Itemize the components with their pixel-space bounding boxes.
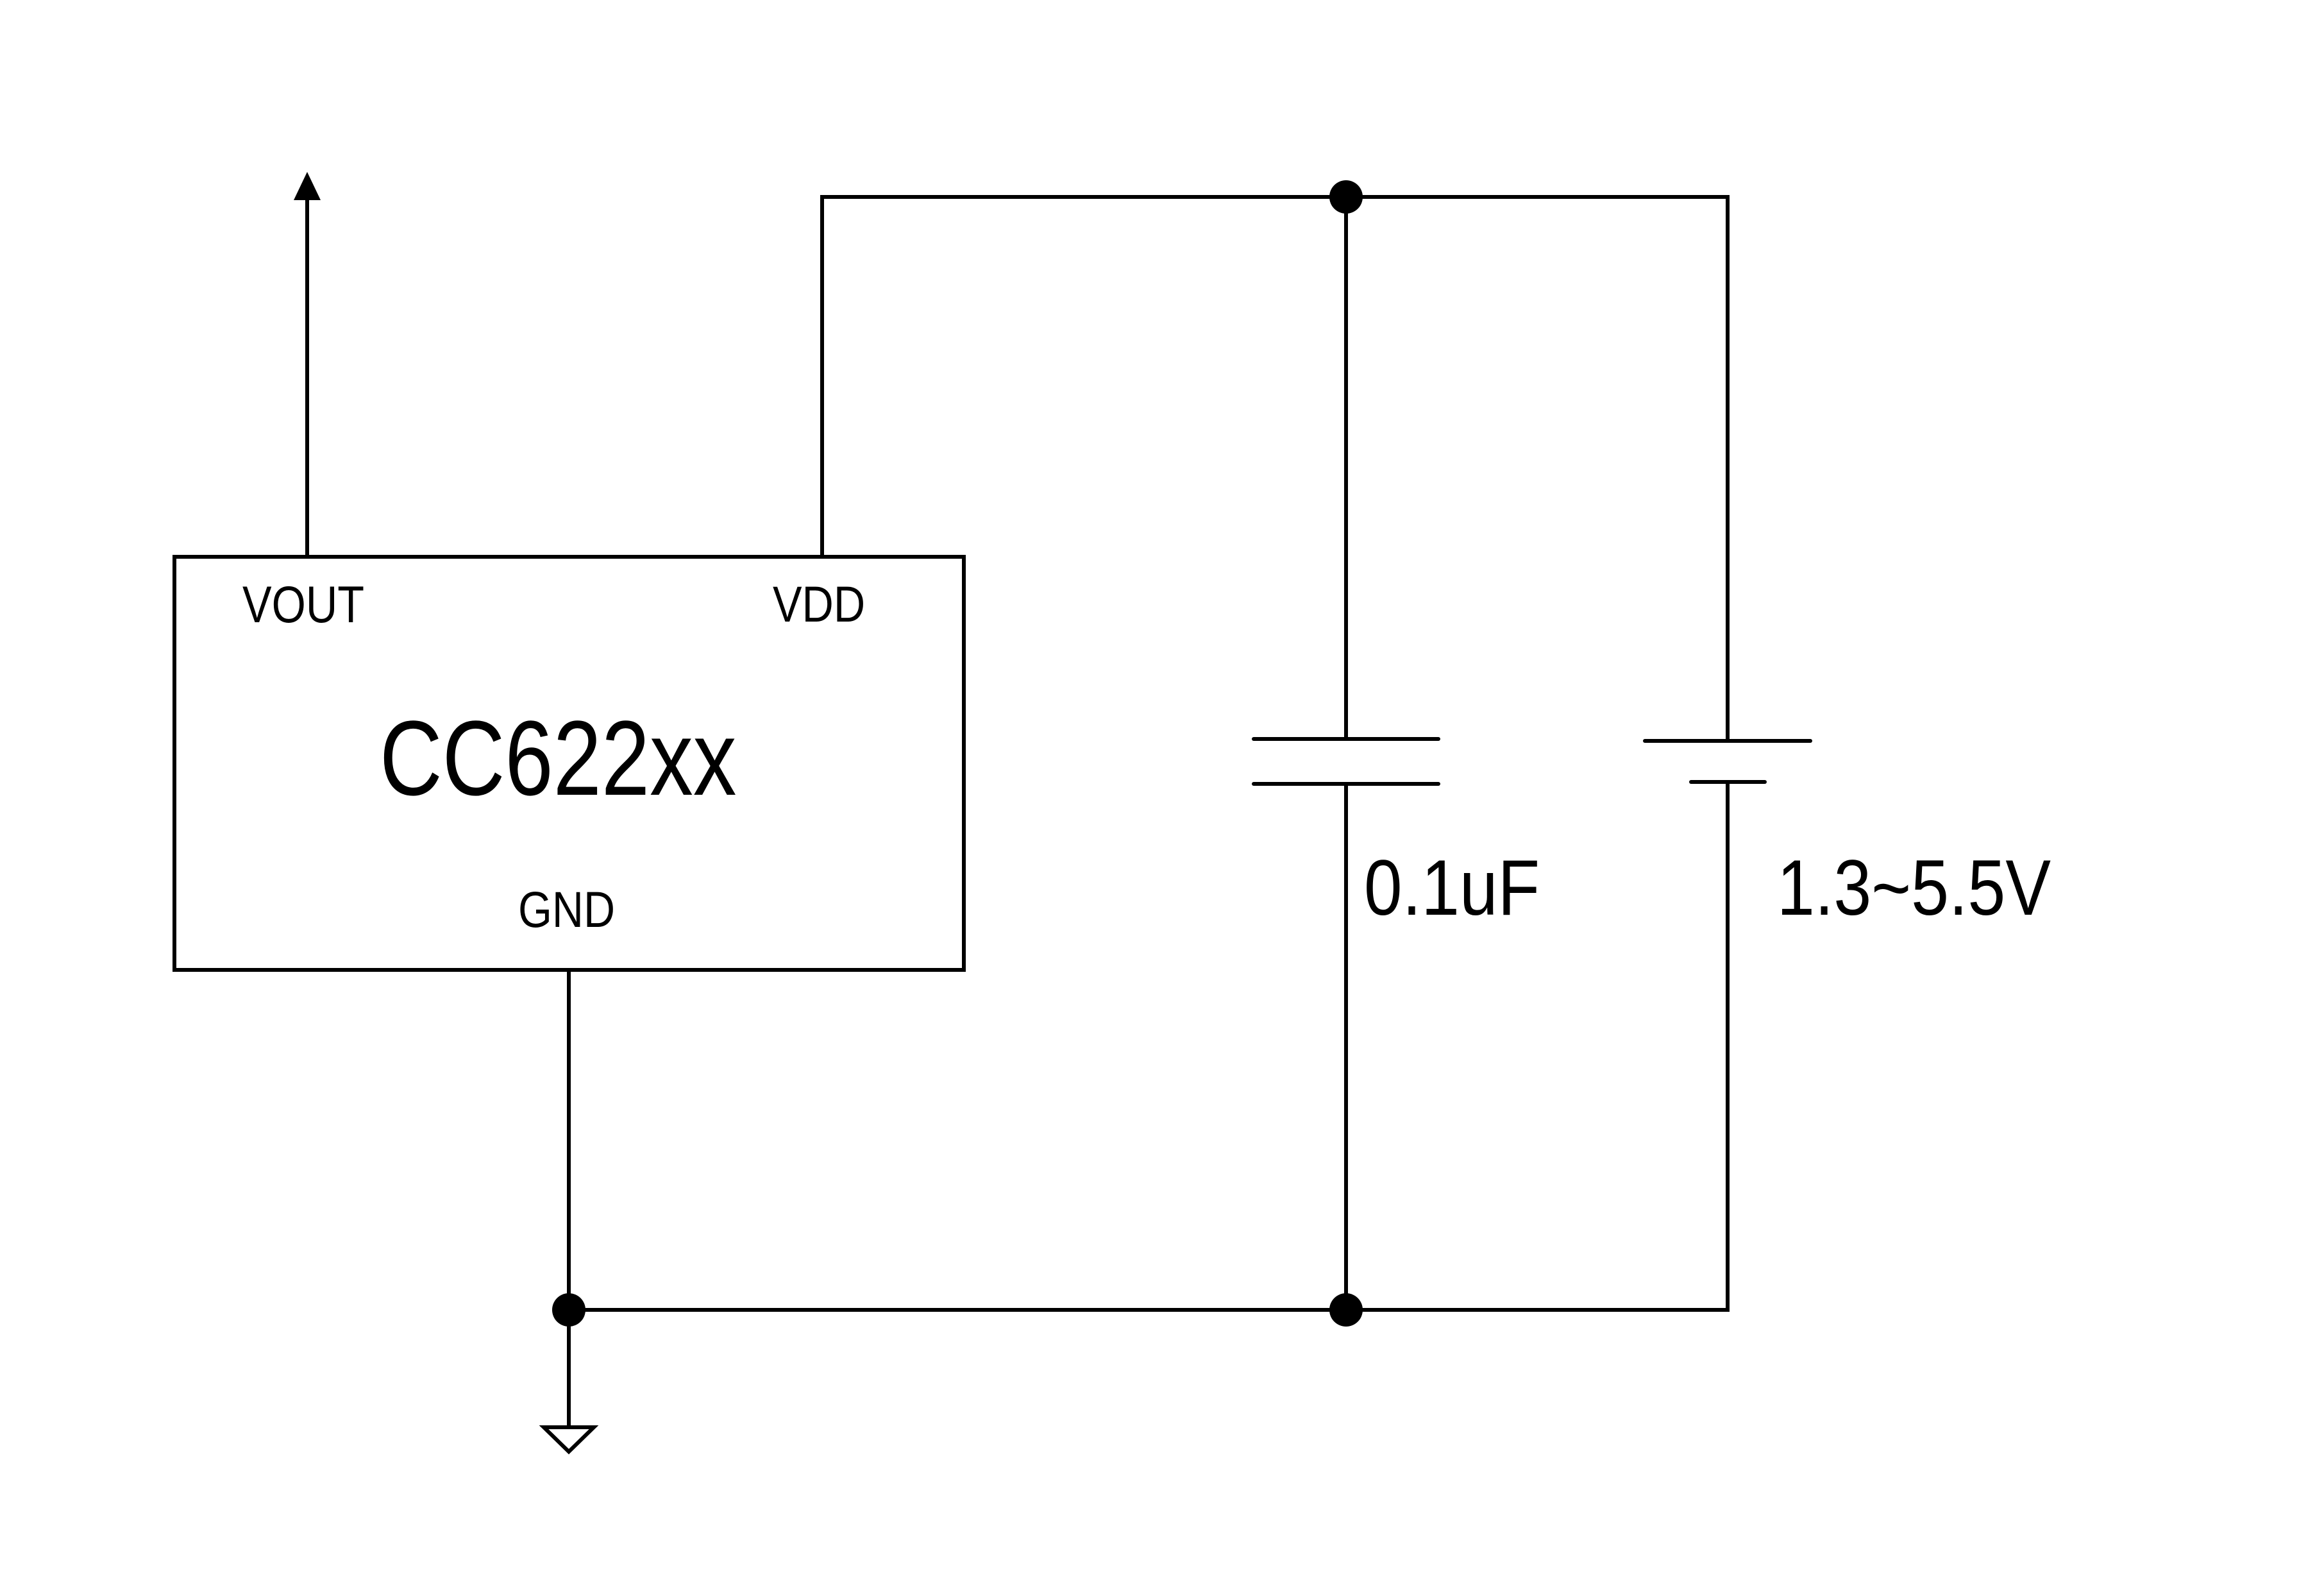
svg-text:CC622xx: CC622xx	[380, 699, 736, 818]
svg-text:VDD: VDD	[773, 576, 865, 633]
svg-text:GND: GND	[518, 881, 615, 938]
svg-text:0.1uF: 0.1uF	[1364, 844, 1540, 931]
svg-text:VOUT: VOUT	[242, 575, 364, 634]
svg-text:1.3~5.5V: 1.3~5.5V	[1777, 844, 2051, 932]
